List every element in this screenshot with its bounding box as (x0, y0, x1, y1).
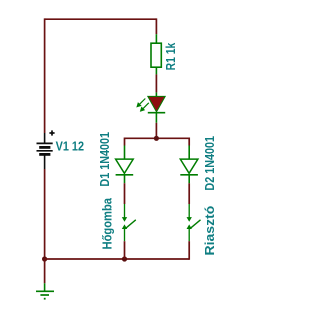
svg-text:D2 1N4001: D2 1N4001 (202, 136, 217, 191)
LED (148, 92, 165, 122)
wire switch S1 to bottom junction (124, 241, 126, 259)
wire gnd stub (44, 259, 46, 283)
ground (36, 283, 54, 298)
wire switch S2 to bottom wire (188, 241, 190, 260)
switch S2 (Riaszto) (188, 204, 201, 241)
wire left vertical (battery bottom) (44, 169, 46, 259)
diode D2 (180, 146, 198, 184)
diode D1 (116, 146, 134, 184)
wire middle horizontal (125, 137, 190, 139)
svg-text:R1 1k: R1 1k (163, 42, 178, 70)
wire D2 to switch (188, 183, 190, 204)
wire D1 to switch (124, 183, 126, 204)
switch S1 (Hogomba) (123, 204, 136, 241)
wire D1 top stub (124, 138, 126, 146)
wire resistor top stub (155, 18, 157, 34)
wire top horizontal (45, 18, 157, 20)
wire between R1 and LED (155, 74, 157, 92)
LED arrows (137, 99, 149, 111)
resistor R1 (151, 34, 161, 74)
node junction middle (154, 136, 159, 141)
svg-text:V1 12: V1 12 (56, 139, 84, 154)
battery V1 (37, 133, 53, 169)
wire LED to middle junction (155, 123, 157, 139)
wire D2 top stub (188, 138, 190, 146)
battery plus sign (49, 130, 54, 135)
node junction left-bottom (42, 256, 47, 261)
svg-text:D1 1N4001: D1 1N4001 (97, 132, 112, 187)
svg-text:Hőgomba: Hőgomba (99, 197, 114, 249)
wire left vertical (battery top) (44, 18, 46, 133)
wire bottom horizontal (45, 258, 190, 260)
node junction bottom-middle (122, 256, 127, 261)
svg-text:Riasztó: Riasztó (202, 206, 217, 256)
